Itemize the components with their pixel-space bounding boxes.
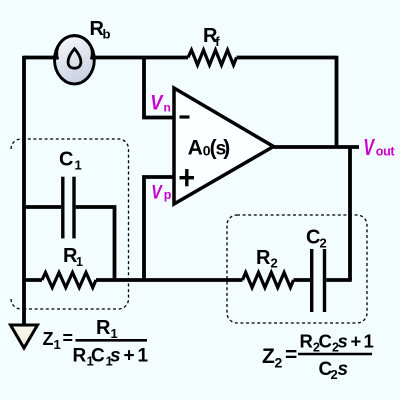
formula Z1 (43, 317, 149, 369)
svg-text:R2C2s+1: R2C2s+1 (300, 331, 374, 355)
wire: top horizontal from Rf to feedback corner (237, 56, 337, 60)
wire: top-left horizontal from left rail to Rf (24, 56, 188, 60)
capacitor C2 (310, 249, 313, 312)
op-amp minus sign (180, 115, 190, 118)
wire: Vp branch (horizontal into op-amp plus input, vertical down to bottom wire) (144, 177, 175, 280)
svg-text:A0(s): A0(s) (188, 136, 231, 159)
wire: R2 to C2 (294, 278, 311, 282)
wire: C1 right lead and drop to bottom wire (76, 207, 115, 280)
resistor Rf (188, 50, 237, 65)
formula Z2 (262, 331, 374, 383)
wire: riser from output node down to Z2 (348, 147, 352, 280)
resistor Rb (lamp-style symbol) (55, 36, 95, 84)
svg-text:R1C1s+1: R1C1s+1 (73, 346, 149, 369)
dashed box Z2 (227, 215, 367, 323)
wire: Vn branch (vertical drop from top wire, horizontal into op-amp minus input) (144, 58, 175, 118)
svg-text:V: V (151, 181, 162, 203)
wire: bottom horizontal from R1 to R2 (96, 278, 243, 282)
op-amp plus sign (180, 176, 195, 179)
dashed box Z1 (11, 139, 129, 309)
wire: C2 right lead to riser (326, 278, 352, 282)
wire: C1 left lead (24, 205, 61, 209)
wire: bottom horizontal left segment to R1 (24, 278, 42, 282)
wire: output from op-amp tip to the right (274, 145, 360, 149)
svg-text:out: out (376, 145, 396, 159)
ground (11, 325, 38, 348)
resistor R1 (42, 273, 96, 288)
svg-text:p: p (164, 188, 172, 202)
op-amp U1 A0(s) (174, 88, 274, 204)
resistor R2 (243, 273, 294, 288)
capacitor C1 (61, 177, 64, 239)
svg-text:V: V (150, 91, 164, 115)
wire: left vertical rail (22, 56, 26, 325)
wire: feedback vertical from top wire to output node (335, 56, 339, 147)
svg-text:n: n (164, 100, 171, 114)
svg-text:V: V (363, 135, 375, 161)
